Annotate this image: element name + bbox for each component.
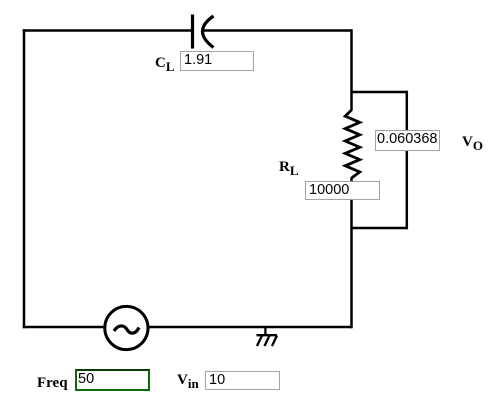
wire branch top	[352, 91, 408, 94]
wire branch right	[406, 91, 409, 229]
wire bottom-right segment	[147, 326, 352, 329]
label C1 "CL"	[155, 56, 175, 71]
label Vin	[177, 373, 199, 388]
value box C1 "1.91"	[180, 51, 254, 71]
label Freq	[37, 376, 68, 391]
wire left side	[23, 29, 26, 328]
value box R1 "10000"	[305, 181, 380, 201]
label VO	[462, 135, 483, 150]
resistor R1 zigzag	[345, 110, 360, 178]
wire bottom-left segment	[23, 326, 106, 329]
label R1 "RL"	[279, 160, 299, 175]
wire top-left segment	[23, 29, 193, 32]
wire branch bottom	[352, 227, 408, 230]
input box Freq "50"	[75, 369, 150, 391]
source V1	[105, 306, 148, 349]
wire top-right segment	[203, 29, 352, 32]
wire right side lower	[350, 178, 353, 329]
wire right side upper	[350, 29, 353, 110]
ground	[257, 327, 278, 346]
input box Vin "10"	[205, 371, 280, 390]
capacitor C1	[193, 15, 214, 49]
value box VO "0.060368"	[375, 130, 440, 151]
